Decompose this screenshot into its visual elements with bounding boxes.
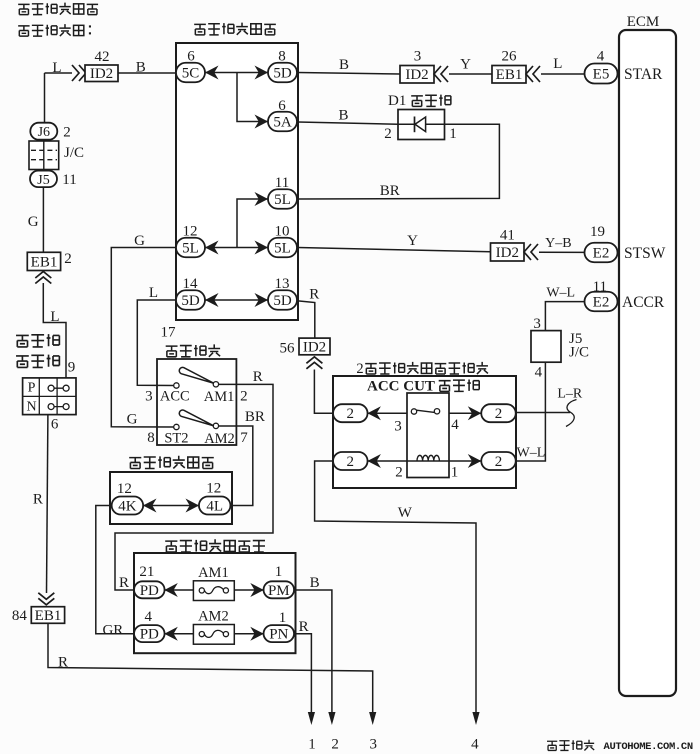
svg-text:W–L: W–L [517,446,546,461]
wire 5C to 5D(8) [205,72,268,74]
svg-text:STAR: STAR [624,66,663,83]
label AM2 [198,609,229,625]
title line1 不带智能进入 [18,3,98,15]
connector 5D [268,290,297,310]
svg-text:R: R [119,575,129,591]
svg-text:D1: D1 [388,93,406,109]
svg-text:2: 2 [331,737,339,753]
arrow into PD21 [164,583,178,597]
svg-text:7: 7 [240,430,248,446]
svg-text:Y: Y [407,233,418,249]
connector 5A [268,112,297,132]
pin 11 [275,175,289,191]
label L [50,309,59,325]
wire BR diode to 5L11 [298,124,499,199]
label L-R [557,387,583,402]
svg-text:ST2: ST2 [164,430,188,446]
svg-text:6: 6 [278,98,286,114]
svg-text:6: 6 [51,417,59,433]
fuse AM1 element [199,587,228,594]
svg-text:E2: E2 [593,246,610,262]
wire G 5L12 to ST2 [111,248,176,428]
connector 2 relay top-left [333,404,368,422]
connector ID2 42 [85,65,118,82]
svg-text:EB1: EB1 [496,67,523,83]
pin 21 [139,564,154,580]
arrowhead 2 [328,712,335,725]
svg-text:PN: PN [269,627,288,643]
svg-text:5D: 5D [181,293,200,309]
label R [299,619,309,635]
pin 6 [278,98,286,114]
relay coil [407,455,449,461]
pin 10 [275,224,290,240]
connector 5L [268,189,297,209]
label L [149,285,158,301]
svg-text:STSW: STSW [624,245,666,262]
pin 2 AM1 [240,389,248,405]
svg-text:1: 1 [449,126,457,142]
connector ID2 41 chevrons [524,244,538,260]
connector J6 [30,123,57,141]
svg-text:56: 56 [280,340,296,356]
pin 6 [187,49,195,65]
svg-text:8: 8 [278,49,286,65]
wire 5D(14) to 5D(13) [205,299,268,301]
pin 1 of relay [451,465,459,481]
label R [33,492,43,508]
connector PM [264,581,295,599]
label B [338,108,348,124]
wire junction to 5A [237,73,268,122]
svg-text:12: 12 [206,481,221,497]
connector 5C [176,63,205,83]
svg-text:3: 3 [369,737,377,753]
wire R 5D13 to ID2 56 [298,301,315,338]
neutral start switch label 动开关 [16,355,59,368]
svg-text:1: 1 [451,465,459,481]
wire W-L E2 to J5 [545,302,585,331]
connector 5D [268,63,297,83]
front passenger side junction box [134,553,296,653]
node 3 [369,737,377,753]
connector ID2 3 [400,66,434,84]
svg-text:11: 11 [62,172,76,188]
svg-text:G: G [28,214,39,230]
svg-text:41: 41 [500,228,515,244]
arrowhead 3 [369,712,376,725]
label ST2 [164,430,188,446]
label R [309,287,319,303]
wire junction to 5L(11) [237,199,268,248]
pin 4 [597,49,605,65]
connector 2 relay bottom-right [481,452,516,470]
wire R AM1 to PD21 [115,384,273,590]
label R [119,575,129,591]
svg-text:5A: 5A [273,115,292,131]
pin 12 of 4L [206,481,221,497]
left middle junction box [176,43,298,320]
svg-text:3: 3 [145,389,153,405]
ignition lever AM2-ST2 [179,410,214,426]
svg-text:12: 12 [183,224,198,240]
svg-text:E2: E2 [593,295,610,311]
svg-text:4: 4 [451,417,459,433]
arrow into 5D(14) [205,293,219,307]
pin 84 [12,608,28,624]
watermark 汽车之家 [547,740,594,751]
arrow into 5D(8) [255,66,269,80]
ignition terminal AM1 [213,382,218,387]
wire relay contact row [367,412,481,414]
svg-text:4: 4 [471,737,479,753]
junction J/C grid [29,141,59,170]
connector ID2 56 [299,338,330,355]
arrow into 5A [255,115,269,129]
wire B 5A to diode [298,122,398,124]
pin 12 of 4K [117,481,132,497]
engine room relay box No.2 [333,376,516,488]
pin 2 of EB1 [64,251,72,267]
svg-text:5D: 5D [273,66,292,82]
svg-text:B: B [310,575,320,591]
svg-text:J/C: J/C [569,345,589,361]
svg-text:2: 2 [64,251,72,267]
connector 5L [176,238,205,258]
svg-text:2: 2 [347,406,355,422]
ACC CUT relay inner box [407,393,449,478]
svg-text:10: 10 [275,224,290,240]
svg-text:2: 2 [356,361,363,377]
svg-text:R: R [253,369,263,385]
wire L 5D14 to ACC [137,300,176,386]
label AM2 [204,431,235,447]
svg-text:E5: E5 [593,67,610,83]
pin 11 [593,279,607,295]
svg-text:L: L [553,56,562,72]
node 4 [471,737,479,753]
svg-text:9: 9 [68,360,76,376]
arrow into 5L(10) [255,241,269,255]
svg-text:8: 8 [147,430,155,446]
pin 26 [502,49,518,65]
svg-text:G: G [134,233,145,249]
svg-text:R: R [299,619,309,635]
label AM1 [204,389,235,405]
wire Y [449,73,492,75]
pin 14 [183,276,199,292]
node 1 [308,737,316,753]
pin 13 [275,276,290,292]
pin 7 AM2 [240,430,248,446]
svg-text:L–R: L–R [557,387,583,402]
wire W relay to arrow 4 [315,461,476,712]
arrow into 5C [205,66,219,80]
wire L [541,73,585,75]
connector 4K [112,497,143,515]
connector 4L [199,497,231,515]
svg-text:R: R [309,287,319,303]
svg-text:4: 4 [535,365,543,381]
connector ID2 3 chevrons [434,66,448,82]
label L [553,56,562,72]
svg-text:11: 11 [593,279,607,295]
wire B PM to arrow 2 [294,590,332,712]
svg-text:5D: 5D [273,293,292,309]
label J/C [569,345,589,361]
P/N switch contacts [48,385,69,409]
pin 1 of PN [279,610,287,626]
svg-text:P: P [28,381,36,396]
arrow into relay 2 top-right [468,406,482,420]
connector 5L [268,238,297,258]
connector ID2 42 chevrons [72,65,86,81]
pin 2 of J6 [63,124,71,140]
svg-text:12: 12 [117,481,132,497]
junction box label 前乘员侧接线盒 [165,539,265,552]
label STAR [624,66,663,83]
svg-text:14: 14 [183,276,199,292]
pin 3 of relay [394,418,402,434]
wire PD21 fuse row [164,589,263,591]
svg-text:1: 1 [279,610,287,626]
label B [339,57,349,73]
wire GR 4K to PD4 [96,506,134,634]
svg-text:2: 2 [384,126,392,142]
wire 4K to 4L [143,505,199,507]
fuse AM1 box [193,581,234,601]
arrow into PD4 [164,627,178,641]
svg-text:GR: GR [102,623,123,639]
arrow into relay 2 top-left [367,406,381,420]
svg-text:AUTOHOME.COM.CN: AUTOHOME.COM.CN [604,741,693,753]
pin 17 [161,325,177,341]
pin 19 [590,224,605,240]
svg-text:26: 26 [502,49,518,65]
svg-text:4: 4 [144,609,152,625]
arrow into 4K [143,499,157,513]
label ECM [627,14,660,30]
svg-text:W: W [398,505,413,521]
svg-text:4K: 4K [118,499,137,515]
svg-text:21: 21 [139,564,154,580]
connector E2 19 [585,243,618,263]
svg-text:BR: BR [380,183,400,199]
svg-text:ID2: ID2 [405,67,428,83]
svg-text:17: 17 [161,325,177,341]
wire R switch to EB1 84 [47,415,48,593]
svg-text:5L: 5L [182,241,199,257]
pin 42 [95,49,110,65]
ignition terminal ST2 [174,424,179,429]
pin 12 [183,224,198,240]
fuse AM2 element [199,630,228,637]
connector 2 relay bottom-left [333,452,368,470]
svg-text:L: L [149,285,158,301]
pin 4 of relay [451,417,459,433]
label W [398,505,413,521]
ignition switch label 点火开关 [166,344,220,356]
pin 41 [500,228,515,244]
ignition terminal ACC [174,383,179,388]
svg-text:ID2: ID2 [90,66,113,82]
svg-text:2: 2 [240,389,248,405]
wire ID2 56 to relay [314,370,333,414]
svg-text:AM2: AM2 [204,431,235,447]
svg-text:2: 2 [347,454,355,470]
connector PD 21 [134,581,165,599]
wire 5L(12) to 5L(10) [205,247,268,249]
svg-text:2: 2 [63,124,71,140]
diode D1 box [398,110,445,140]
neutral start switch label 空挡起 [16,334,59,347]
svg-text:AM1: AM1 [198,565,229,581]
arrowhead 4 [472,712,479,725]
wire break squiggle [566,400,577,427]
junction J5 J/C box [531,331,561,363]
wire down to J6 [44,73,46,123]
svg-text:4: 4 [597,49,605,65]
label Y [407,233,418,249]
label Y-B [545,236,571,251]
label R [58,655,68,671]
ignition lever AM1-ACC [179,367,214,383]
arrow into PN [250,627,263,641]
label Y [460,57,471,73]
label B [136,60,146,76]
svg-text:4L: 4L [206,499,223,515]
watermark AUTOHOME.COM.CN [604,741,693,753]
connector 2 relay top-right [481,404,516,422]
label GR [102,623,123,639]
pin 3 [414,49,422,65]
pin 1 of diode [449,126,457,142]
svg-text:EB1: EB1 [31,254,58,270]
right middle junction box [110,472,232,524]
svg-text:Y–B: Y–B [545,236,571,251]
svg-text:R: R [33,492,43,508]
pin 6 [51,417,59,433]
svg-text:B: B [136,60,146,76]
fuse AM2 box [193,625,234,645]
arrow into 4L [186,499,200,513]
connector 5D [176,290,205,310]
ignition switch box [157,359,236,445]
svg-text:AM2: AM2 [198,609,229,625]
label R [253,369,263,385]
connector J5 [30,171,57,188]
connector PN [264,625,295,643]
wire L-R stub [516,412,570,414]
wire R EB1-84 to arrow 3 [48,623,373,712]
pin 8 ST2 [147,430,155,446]
relay switch contact [411,409,439,415]
wire Y-B [539,251,585,253]
pin 56 [280,340,296,356]
wire relay coil row [367,460,481,462]
wire PD4 fuse row [164,633,263,635]
wire L into ID2 42 [45,72,73,74]
label B [310,575,320,591]
svg-text:R: R [58,655,68,671]
svg-text:G: G [127,412,138,428]
connector E5 [585,64,618,84]
connector PD 4 [134,625,165,643]
connector EB1 2 chevrons [35,272,51,284]
label L [52,60,61,76]
ignition terminal AM2 [213,423,218,428]
wire G J5 to EB1 [42,187,44,252]
svg-text:2: 2 [495,406,503,422]
pin 9 [68,360,76,376]
arrow into 5D(13) [255,293,269,307]
connector EB1 84 [31,607,64,624]
wire B ID2 to 5C [118,72,176,74]
svg-text:42: 42 [95,49,110,65]
connector EB1 26 chevrons [526,66,540,82]
wire B 5D8 to ID2 3 [298,73,400,75]
arrow into relay 2 bottom-left [367,454,381,468]
relay label ACC CUT 继电器 [367,379,479,395]
wire BR AM2 to 4L [219,426,253,506]
svg-text:L: L [50,309,59,325]
label W-L [546,286,575,301]
svg-text:J/C: J/C [64,145,84,161]
label STSW [624,245,666,262]
pin 4 of J5 [535,365,543,381]
svg-text:84: 84 [12,608,28,624]
pin 3 of J5 [533,316,541,332]
svg-text:EB1: EB1 [35,608,62,624]
label W-L [517,446,546,461]
wire R PN to arrow 1 [294,634,311,712]
connector EB1 84 chevrons [38,593,54,605]
svg-text:11: 11 [275,175,289,191]
wire W-L J5 to relay [516,362,545,461]
svg-text:5C: 5C [182,66,200,82]
pin 1 of PM [275,564,283,580]
svg-text:B: B [339,57,349,73]
svg-text:ACC: ACC [160,389,190,405]
pin 4 of PD [144,609,152,625]
park/neutral switch box [23,378,76,415]
label ACC [160,389,190,405]
node 2 [331,737,339,753]
svg-text:PD: PD [140,583,159,599]
connector ID2 41 [491,243,525,261]
svg-text:J5: J5 [37,173,49,188]
svg-text:ECM: ECM [627,14,660,30]
label ACCR [622,294,665,311]
arrowhead 1 [308,712,315,725]
relay box label 2号发动机室继电器盒 [356,361,488,377]
connector E2 11 [585,292,618,312]
label G [28,214,39,230]
svg-text:1: 1 [275,564,283,580]
svg-text:13: 13 [275,276,290,292]
junction box label 右中间接线盒 [129,456,214,469]
pin 2 of diode [384,126,392,142]
svg-text:3: 3 [394,418,402,434]
svg-text:6: 6 [187,49,195,65]
svg-text:2: 2 [495,454,503,470]
svg-text:ID2: ID2 [496,245,519,261]
label G [134,233,145,249]
label J/C [64,145,84,161]
arrow into PM [250,583,263,597]
arrow into 5L(12) [205,241,219,255]
label AM1 [198,565,229,581]
